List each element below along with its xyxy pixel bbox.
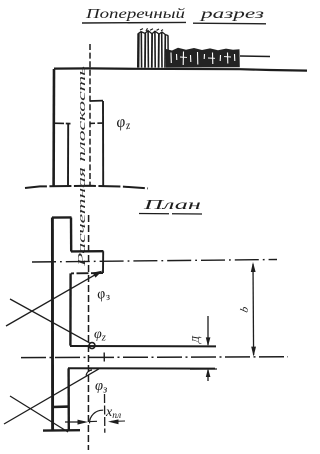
plan wall rung bbox=[53, 405, 70, 408]
wall step cap (cross-section) bbox=[53, 122, 71, 124]
wall inner step vertical (cross-section) bbox=[67, 124, 69, 186]
svg-text:φz: φz bbox=[115, 113, 131, 134]
calculation-plane dashed vertical (plan) bbox=[87, 215, 89, 450]
x_pl dimension bbox=[65, 353, 125, 433]
D dimension line bbox=[190, 316, 217, 381]
diagonal ray B (to bottom opening corner) bbox=[4, 369, 99, 424]
plan step top bbox=[71, 250, 103, 253]
plan wall bottom cap bbox=[43, 429, 80, 432]
channel top edge bbox=[70, 345, 216, 347]
wide dark block bbox=[166, 48, 240, 68]
title: Поперечный разрез bbox=[82, 6, 266, 24]
centerline 1 (dash-dot, upper) bbox=[32, 260, 277, 263]
svg-text:План: План bbox=[142, 198, 201, 213]
b dimension line bbox=[251, 262, 256, 357]
ground line (cross-section top surface) bbox=[54, 68, 307, 70]
plan wall outer edge bbox=[51, 218, 54, 431]
small arc at bottom corner bbox=[86, 370, 92, 376]
base line (cross-section) bbox=[25, 186, 148, 189]
diagonal ray A (lower) bbox=[10, 396, 68, 432]
svg-text:Д: Д bbox=[190, 335, 202, 344]
channel bottom edge bbox=[68, 367, 215, 369]
plan wall inner edge upper bbox=[70, 218, 73, 252]
svg-text:b: b bbox=[238, 305, 251, 314]
plan wall inner edge lower bbox=[67, 368, 70, 430]
diagonal ray 2 (to top opening corner) bbox=[10, 299, 90, 343]
plan step right vertical bbox=[102, 251, 104, 273]
wall left outer edge (cross-section) bbox=[52, 69, 55, 186]
svg-text:xпл: xпл bbox=[105, 405, 121, 421]
svg-text:разрез: разрез bbox=[199, 6, 264, 21]
diagonal ray 1 with arrow (phi-g) bbox=[6, 271, 103, 326]
small circle at opening corner bbox=[89, 343, 95, 349]
tall hatched block bbox=[138, 28, 168, 67]
calculation-plane dashed vertical (cross-section) bbox=[89, 44, 91, 186]
right box dashed bottom (cross-section) bbox=[90, 122, 103, 124]
right box top (cross-section) bbox=[90, 100, 103, 102]
svg-text:φz: φz bbox=[94, 327, 106, 344]
svg-text:Поперечный: Поперечный bbox=[85, 6, 186, 21]
plan step bottom bbox=[71, 272, 103, 274]
plan wall inner edge middle bbox=[69, 273, 72, 345]
thin ledge line right of block bbox=[240, 55, 270, 58]
svg-text:φз: φз bbox=[95, 378, 107, 396]
centerline 2 (dash-dot, axis) bbox=[21, 356, 288, 359]
plan wall top cap bbox=[52, 216, 72, 219]
right box vertical (cross-section) bbox=[102, 101, 104, 186]
svg-text:Расчетная плоскость: Расчетная плоскость bbox=[76, 66, 88, 268]
title: План bbox=[139, 198, 205, 214]
svg-text:φз: φз bbox=[96, 285, 112, 305]
